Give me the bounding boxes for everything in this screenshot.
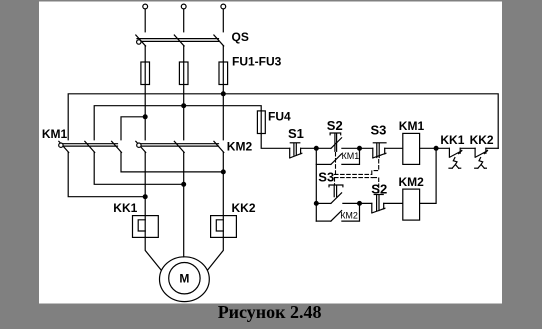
wire S3 to S2 rung2: [343, 202, 372, 204]
motor M inner circle: [169, 263, 200, 294]
wire through fuse FU2: [183, 62, 185, 140]
button S3 NC (interlock in rung1): [372, 148, 374, 158]
svg-text:КМ1: КМ1: [342, 151, 360, 161]
wire KM1 pole1 output to motor line U: [68, 152, 145, 196]
svg-text:KK2: KK2: [232, 201, 256, 215]
button S2 NC (interlock in rung2): [371, 203, 373, 213]
mechanical link dash row A (S3 pair): [335, 173, 372, 175]
mechanical link drop to S3 NO actuator: [334, 178, 336, 185]
svg-text:QS: QS: [232, 30, 249, 44]
wire QS to FU1: [144, 46, 146, 62]
wire S2 to KM2 coil: [384, 202, 403, 204]
contactor KM1 main pole 1 blade: [59, 141, 69, 152]
motor M outer circle: [160, 257, 210, 302]
svg-text:KK2: KK2: [470, 133, 494, 147]
bus B phase2 to KM1 pole2 and FU4: [94, 106, 261, 140]
svg-text:S2: S2: [327, 118, 343, 133]
contactor KM1 linkage bar: [61, 143, 118, 145]
svg-text:S1: S1: [288, 126, 304, 141]
coil KM1: [403, 133, 420, 164]
svg-text:S3: S3: [371, 122, 387, 137]
button S2 (NO start fwd): [331, 138, 342, 149]
switch QS linkage bar: [137, 38, 219, 40]
node U join: [143, 195, 147, 199]
svg-text:KK1: KK1: [440, 133, 464, 147]
node aux rejoin rung1: [358, 146, 362, 150]
wire QS to FU2: [183, 46, 185, 62]
fuse FU1: [141, 62, 150, 85]
wire KM2 pole3 output down to KK2: [222, 152, 224, 237]
wire rung2 start: [316, 202, 331, 204]
terminal L1: [143, 4, 148, 9]
svg-text:Рисунок 2.48: Рисунок 2.48: [218, 302, 322, 322]
contactor KM2 main pole 2 blade: [174, 141, 184, 152]
node bus B / phase 2: [182, 104, 186, 108]
thermal element KK2 heater kink: [216, 220, 223, 231]
contactor KM2 main pole 1 blade: [136, 141, 146, 152]
wire KM2 pole1 output down to KK1: [144, 152, 146, 237]
wire KM1 pole3 output to motor line W: [121, 152, 223, 172]
wire KM2 pole2 output down to motor: [183, 152, 185, 257]
contact KK1 (NC thermal): [448, 148, 450, 157]
svg-text:FU1-FU3: FU1-FU3: [232, 55, 282, 69]
svg-text:KM2: KM2: [399, 175, 425, 189]
fuse FU3: [219, 62, 228, 85]
node bus A / phase 3: [221, 92, 225, 96]
white drawing area: [39, 2, 502, 304]
bus C phase1 to KM1 pole3: [121, 117, 145, 140]
wire branch drop: [315, 148, 317, 221]
mechanical link dash row B (S2 pair): [335, 177, 373, 179]
wire L2 drop to QS: [183, 9, 185, 32]
svg-text:S3: S3: [318, 169, 334, 184]
switch QS pole 3 blade: [214, 35, 224, 46]
fuse FU2: [179, 62, 188, 85]
contact KM2 aux (seal-in): [316, 220, 331, 222]
svg-text:КМ2: КМ2: [340, 211, 358, 221]
wire KM2 coil return to rung1: [420, 148, 437, 203]
wire L3 drop to QS: [222, 9, 224, 32]
wire KK1 to motor: [145, 237, 161, 270]
wire QS to FU3: [222, 46, 224, 62]
node aux2 rejoin: [358, 202, 362, 206]
node rung2 branch: [314, 202, 318, 206]
mechanical link drop from S2 NO actuator: [335, 153, 337, 175]
node rung1 branch: [314, 146, 318, 150]
mechanical link drop to S2 NC actuator: [373, 178, 379, 193]
contactor KM2 linkage bar: [139, 143, 219, 145]
wire S1 to node1: [301, 147, 331, 149]
thermal element KK1 heater kink: [138, 220, 145, 231]
svg-text:KM1: KM1: [399, 119, 425, 133]
svg-text:KM1: KM1: [42, 127, 68, 141]
terminal L2: [181, 4, 186, 9]
contactor KM2 main pole 3 blade: [214, 141, 224, 152]
switch QS pole 1 blade: [136, 35, 146, 46]
coil KM2: [403, 189, 420, 220]
button S3 (NO start rev): [331, 193, 342, 204]
wire through fuse FU3: [222, 62, 224, 140]
wire KK2 to right rail: [486, 147, 498, 149]
wire KM1 coil to node: [420, 147, 450, 149]
wire S3 to KM1 coil: [385, 147, 403, 149]
node W join: [221, 170, 225, 174]
contactor KM1 main pole 2 blade: [85, 141, 95, 152]
contactor KM2 pivot circle: [137, 143, 141, 147]
wire L1 drop to QS: [144, 9, 146, 32]
contact KK2 (NC thermal): [474, 148, 476, 157]
bus A phase3 to KM1 pole1 and control rail: [68, 94, 498, 149]
wire through fuse FU1: [144, 62, 146, 140]
switch QS handle circle: [137, 40, 141, 44]
fuse FU4: [260, 111, 262, 134]
thermal element KK2 box: [211, 216, 237, 238]
svg-text:FU4: FU4: [268, 110, 291, 124]
contactor KM1 pivot circle: [59, 143, 63, 147]
svg-text:S2: S2: [371, 181, 387, 196]
mechanical link riser to S3 NC plunger: [372, 160, 379, 175]
svg-text:KM2: KM2: [227, 139, 253, 153]
wire S2 to S3: [342, 147, 373, 149]
node KM2 return: [434, 146, 438, 150]
node bus C / phase 1: [143, 115, 147, 119]
thermal element KK1 box: [133, 216, 159, 238]
terminal L3: [221, 4, 226, 9]
node V join: [182, 182, 186, 186]
button S1 (NC stop): [289, 148, 291, 158]
wire KK1 to KK2: [460, 147, 475, 149]
contact KM1 aux (seal-in): [316, 163, 331, 165]
wire KK2 to motor: [208, 237, 224, 270]
wire KM1 pole2 output to motor line V: [94, 152, 184, 184]
svg-text:M: M: [179, 272, 189, 286]
wire FU4 to S1: [261, 134, 290, 149]
contactor KM1 main pole 3 blade: [112, 141, 122, 152]
svg-text:KK1: KK1: [113, 201, 137, 215]
switch QS pole 2 blade: [174, 35, 184, 46]
mechanical link dashes S2/S3: [335, 153, 379, 193]
